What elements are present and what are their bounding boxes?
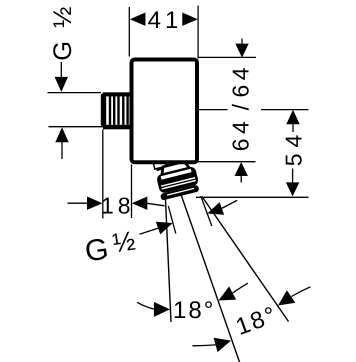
spray line A (vertical) xyxy=(166,200,172,323)
angle 18 second label xyxy=(193,287,311,352)
dim G1/2 left (thread) xyxy=(48,4,104,159)
svg-text:G ½: G ½ xyxy=(49,4,77,61)
extension at mouth left xyxy=(168,206,176,234)
angle 18 first label xyxy=(137,283,248,324)
svg-text:54: 54 xyxy=(281,129,307,167)
extension at mouth right xyxy=(201,196,212,226)
body (wall plate) xyxy=(132,60,198,163)
svg-text:G: G xyxy=(83,233,111,269)
threaded connector G1/2 (left nipple) xyxy=(101,92,132,129)
dim 18 (projection) xyxy=(68,130,165,219)
svg-text:64 / 64: 64 / 64 xyxy=(227,63,253,151)
outlet nozzle (tilted cylinder below body) xyxy=(152,152,201,200)
spray line C (right) xyxy=(202,197,289,322)
dim G1/2 outlet xyxy=(83,200,237,268)
svg-text:41: 41 xyxy=(148,7,183,34)
svg-text:18: 18 xyxy=(101,193,135,219)
svg-text:½: ½ xyxy=(111,226,137,259)
svg-text:18°: 18° xyxy=(173,297,215,324)
dim 41 top xyxy=(129,6,198,59)
dim 64/64 right xyxy=(183,39,309,183)
spray line B (center) xyxy=(181,195,240,362)
dim 54 right xyxy=(196,110,309,198)
